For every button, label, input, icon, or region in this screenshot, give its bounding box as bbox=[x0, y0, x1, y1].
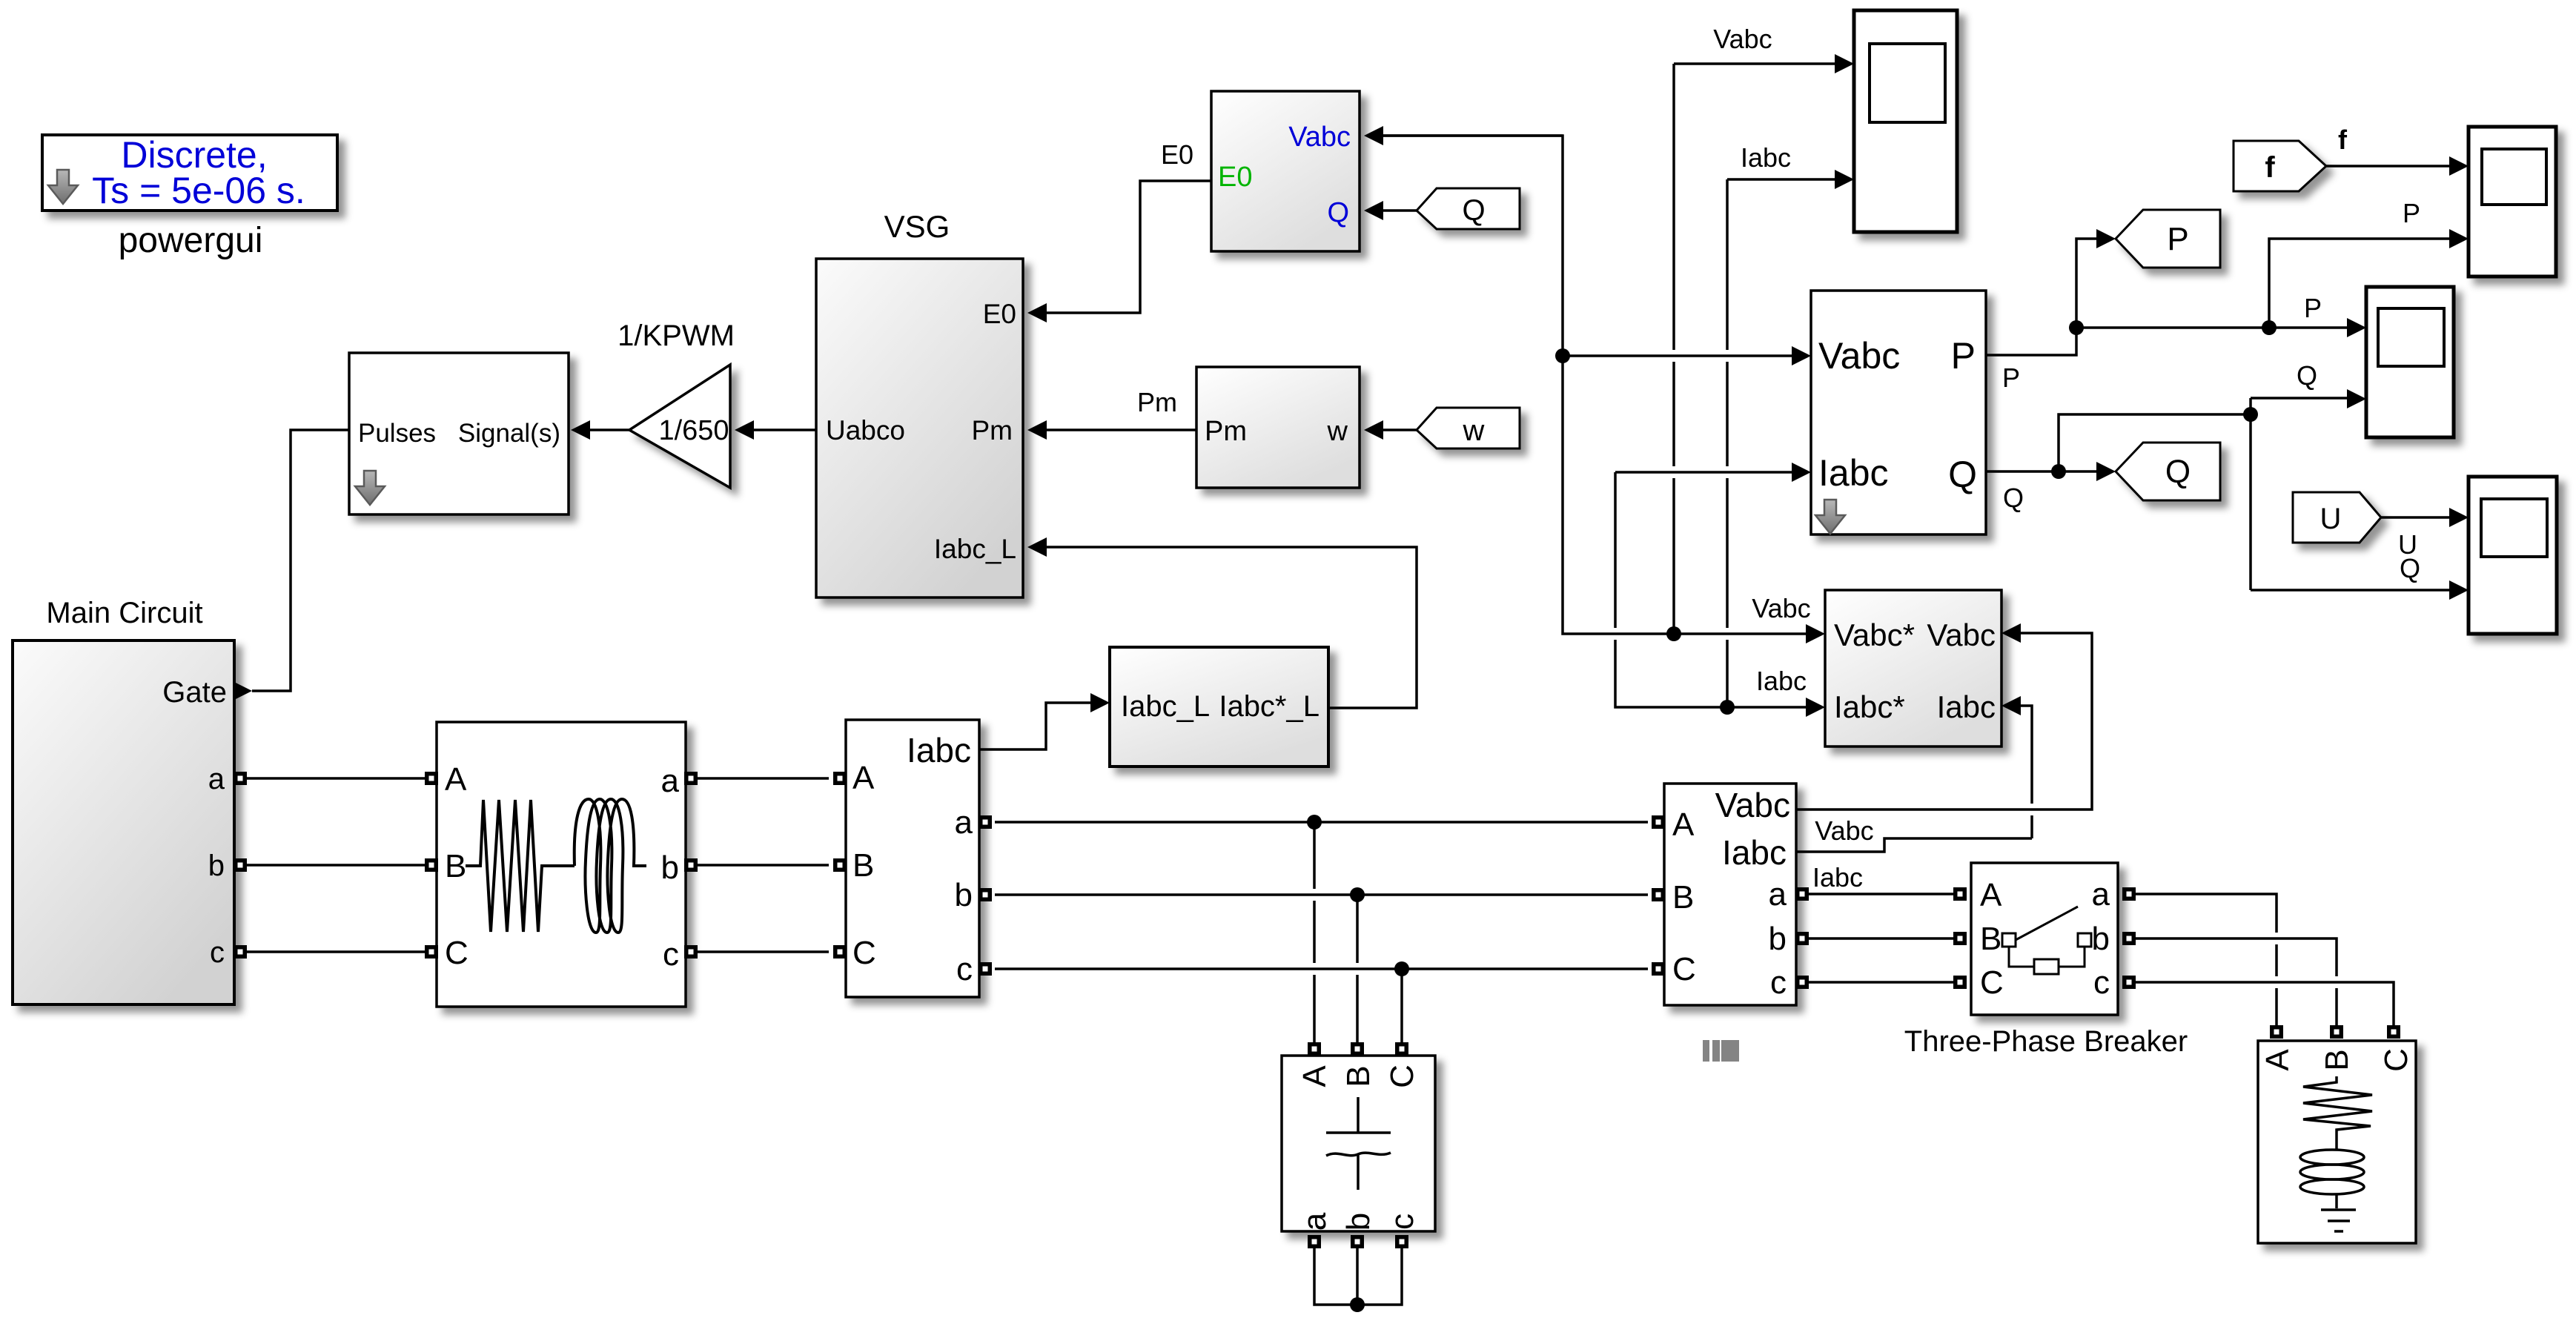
svg-text:Iabc: Iabc bbox=[907, 731, 971, 769]
three-phase capacitor bank bbox=[1282, 1056, 1435, 1231]
Gate input arrow bbox=[233, 681, 252, 701]
svg-text:c: c bbox=[2093, 964, 2110, 1001]
svg-text:A: A bbox=[1980, 877, 2002, 913]
scope2 input arrows bbox=[2347, 318, 2366, 337]
svg-text:B: B bbox=[852, 847, 874, 884]
wire row a measurement1 to measurement2 bbox=[995, 821, 1648, 824]
svg-text:B: B bbox=[1340, 1065, 1377, 1087]
svg-text:E0: E0 bbox=[1161, 139, 1193, 170]
svg-text:b: b bbox=[661, 850, 679, 886]
VSG E0 input arrow bbox=[1027, 303, 1047, 322]
measurement1 port A bbox=[833, 772, 847, 785]
junction node Vabc power tap bbox=[1555, 348, 1570, 363]
svg-text:c: c bbox=[956, 951, 973, 987]
svg-text:Q: Q bbox=[2165, 454, 2191, 490]
wire measurement1 Iabc to Iabc_L block bbox=[979, 703, 1091, 749]
wire w tag to Pm block bbox=[1380, 428, 1417, 431]
wire row a Main Circuit to filter bbox=[245, 777, 426, 780]
svg-text:Q: Q bbox=[2400, 553, 2420, 583]
Vabc net branch to scope bbox=[1674, 64, 1838, 634]
comparison subsystem Vabc* Iabc* bbox=[1825, 590, 2001, 746]
Three-Phase Breaker bbox=[1971, 863, 2118, 1015]
scope U/Q bottom bbox=[2469, 477, 2557, 634]
svg-text:Pm: Pm bbox=[972, 415, 1013, 446]
svg-text:C: C bbox=[2378, 1048, 2414, 1072]
wire breaker b to load B bbox=[2136, 938, 2337, 1026]
svg-text:w: w bbox=[1463, 414, 1485, 447]
svg-text:a: a bbox=[208, 763, 225, 795]
svg-text:f: f bbox=[2338, 125, 2348, 155]
svg-text:C: C bbox=[1672, 951, 1696, 987]
wire breaker c to load C bbox=[2136, 982, 2394, 1026]
svg-text:Vabc: Vabc bbox=[1715, 786, 1790, 824]
svg-text:Three-Phase Breaker: Three-Phase Breaker bbox=[1904, 1025, 2188, 1058]
measurement1 port c bbox=[979, 962, 992, 976]
E0 block Q input arrow bbox=[1364, 201, 1383, 220]
P tag input arrow bbox=[2096, 229, 2116, 248]
svg-text:Gate: Gate bbox=[162, 676, 227, 709]
wire drop c to capacitor C bbox=[1400, 969, 1403, 1044]
svg-text:Q: Q bbox=[1948, 454, 1977, 495]
wire Vabc bus to E0 block bbox=[1380, 134, 1563, 137]
comparison Vabc right input arrow bbox=[2001, 623, 2021, 643]
svg-text:E0: E0 bbox=[983, 299, 1016, 329]
scope P/Q middle bbox=[2366, 287, 2454, 437]
svg-text:C: C bbox=[1980, 964, 2004, 1001]
svg-text:w: w bbox=[1327, 416, 1348, 447]
svg-text:Q: Q bbox=[1327, 197, 1349, 228]
measurement2 port b bbox=[1795, 932, 1809, 945]
svg-text:c: c bbox=[210, 936, 225, 969]
load port B bbox=[2330, 1025, 2343, 1039]
svg-text:P: P bbox=[2002, 362, 2020, 393]
three-phase V-I measurement 2 bbox=[1664, 784, 1796, 1005]
three-phase RLC load bbox=[2258, 1041, 2416, 1243]
From tag U bbox=[2293, 492, 2381, 543]
wire row c measurement1 to measurement2 bbox=[995, 967, 1648, 970]
breaker port a bbox=[2122, 887, 2136, 901]
From tag w bbox=[1417, 408, 1520, 448]
wire gain output to Pulses input bbox=[587, 428, 629, 431]
measurement2 port C bbox=[1652, 962, 1665, 976]
capacitor port B bbox=[1351, 1042, 1364, 1056]
three-phase V-I measurement 1 bbox=[846, 720, 979, 997]
breaker port B bbox=[1953, 932, 1967, 945]
junction node Vabc scope tap bbox=[1666, 626, 1681, 641]
junction node Iabc scope tap bbox=[1720, 700, 1735, 715]
Iabc_L comparison subsystem bbox=[1110, 647, 1328, 767]
measurement1 port C bbox=[833, 945, 847, 959]
pulse generator subsystem (Pulses / Signal(s)) bbox=[349, 353, 569, 514]
capacitor port C bbox=[1395, 1042, 1408, 1056]
wire row c Main Circuit to filter bbox=[245, 950, 426, 953]
port a of Main Circuit bbox=[234, 772, 247, 785]
junction node row a bbox=[1307, 815, 1322, 830]
wire breaker a to load A bbox=[2136, 894, 2277, 1026]
svg-text:Q: Q bbox=[2297, 360, 2317, 391]
junction node Q1 bbox=[2051, 464, 2066, 479]
port b of Main Circuit bbox=[234, 858, 247, 872]
filter port c bbox=[684, 945, 698, 959]
svg-text:c: c bbox=[663, 936, 679, 973]
svg-text:b: b bbox=[208, 850, 225, 882]
svg-text:b: b bbox=[2092, 921, 2110, 957]
svg-text:Vabc: Vabc bbox=[1288, 122, 1351, 153]
breaker port c bbox=[2122, 976, 2136, 989]
svg-text:b: b bbox=[1769, 921, 1787, 957]
svg-text:a: a bbox=[661, 763, 680, 799]
wire filter c to measurement1 C bbox=[696, 950, 829, 953]
svg-text:C: C bbox=[445, 935, 468, 971]
svg-text:P: P bbox=[2403, 198, 2420, 228]
measurement1 port B bbox=[833, 858, 847, 872]
svg-text:Iabc*_L: Iabc*_L bbox=[1219, 690, 1320, 723]
junction node P2 bbox=[2262, 320, 2277, 335]
svg-text:Vabc*: Vabc* bbox=[1834, 618, 1915, 652]
powergui block bbox=[42, 134, 337, 211]
svg-text:B: B bbox=[445, 848, 466, 884]
VSG subsystem bbox=[816, 259, 1023, 597]
VSG Pm input arrow bbox=[1027, 420, 1047, 440]
junction node row b bbox=[1350, 887, 1365, 902]
scope top input arrows bbox=[1835, 54, 1854, 73]
wire measurement2 Iabc output loop to comparison block bbox=[1796, 706, 2032, 852]
svg-text:A: A bbox=[445, 761, 467, 798]
capacitor port c bbox=[1395, 1235, 1408, 1248]
svg-text:1/KPWM: 1/KPWM bbox=[617, 320, 735, 352]
wire measurement2 a to breaker A bbox=[1809, 893, 1953, 895]
wire U tag to scope3 bbox=[2381, 516, 2451, 519]
svg-text:a: a bbox=[2092, 876, 2110, 913]
wire filter a to measurement1 A bbox=[696, 777, 829, 780]
wire Q tag to E0 block bbox=[1380, 209, 1417, 212]
junction node Q2 bbox=[2243, 407, 2258, 422]
breaker port b bbox=[2122, 932, 2136, 945]
junction node neutral bbox=[1350, 1297, 1365, 1312]
svg-text:Ts = 5e-06 s.: Ts = 5e-06 s. bbox=[92, 170, 305, 211]
capacitor port b bbox=[1351, 1235, 1364, 1248]
svg-text:B: B bbox=[1672, 879, 1694, 916]
wire E0 block to VSG E0 bbox=[1044, 181, 1211, 313]
From tag Q bbox=[1417, 188, 1520, 229]
wire drop b to capacitor B bbox=[1356, 895, 1359, 1044]
VSG Iabc_L input arrow bbox=[1027, 537, 1047, 557]
svg-text:Iabc: Iabc bbox=[1741, 142, 1791, 173]
svg-text:Vabc: Vabc bbox=[1927, 618, 1996, 652]
svg-text:Iabc_L: Iabc_L bbox=[1121, 690, 1210, 723]
svg-text:P: P bbox=[1951, 335, 1976, 377]
scope3 input arrows bbox=[2449, 508, 2469, 527]
svg-text:U: U bbox=[2320, 503, 2342, 535]
scope Vabc/Iabc top bbox=[1854, 10, 1957, 232]
svg-text:powergui: powergui bbox=[119, 221, 263, 260]
svg-text:1/650: 1/650 bbox=[658, 415, 729, 446]
wire drop a to capacitor A bbox=[1313, 822, 1316, 1044]
capacitor port A bbox=[1308, 1042, 1321, 1056]
scope1 input arrows bbox=[2449, 156, 2469, 176]
comparison Vabc* input arrow bbox=[1806, 624, 1825, 643]
measurement2 port a bbox=[1795, 887, 1809, 901]
filter port a bbox=[684, 772, 698, 785]
comparison Iabc right input arrow bbox=[2001, 696, 2021, 715]
measurement1 port a bbox=[979, 815, 992, 829]
svg-text:a: a bbox=[1297, 1212, 1333, 1231]
load port C bbox=[2387, 1025, 2400, 1039]
svg-text:B: B bbox=[1980, 921, 2001, 957]
svg-text:Pulses: Pulses bbox=[358, 419, 436, 448]
measurement2 port c bbox=[1795, 976, 1809, 989]
E0 block Vabc input arrow bbox=[1364, 126, 1383, 145]
measurement2 port A bbox=[1652, 815, 1665, 829]
svg-text:C: C bbox=[1384, 1065, 1420, 1088]
svg-text:Iabc: Iabc bbox=[1937, 689, 1996, 724]
power block Iabc input arrow bbox=[1792, 463, 1811, 482]
wire Iabc_L loop to VSG bbox=[1044, 547, 1417, 708]
svg-text:A: A bbox=[1672, 807, 1695, 843]
svg-text:Iabc: Iabc bbox=[1722, 833, 1787, 872]
wire row b Main Circuit to filter bbox=[245, 864, 426, 867]
svg-text:Uabco: Uabco bbox=[826, 415, 905, 446]
svg-text:B: B bbox=[2319, 1049, 2355, 1070]
svg-text:P: P bbox=[2167, 221, 2188, 257]
svg-text:Signal(s): Signal(s) bbox=[458, 419, 560, 448]
measurement1 port b bbox=[979, 888, 992, 901]
svg-text:C: C bbox=[852, 935, 876, 971]
Q output net bbox=[1986, 398, 2451, 590]
svg-text:a: a bbox=[1769, 876, 1787, 913]
breaker port A bbox=[1953, 887, 1967, 901]
svg-text:E0: E0 bbox=[1218, 162, 1252, 193]
instantaneous power measurement block bbox=[1811, 291, 1986, 534]
filter port b bbox=[684, 858, 698, 872]
wire Pm block to VSG Pm bbox=[1044, 428, 1196, 431]
svg-text:Iabc: Iabc bbox=[1812, 862, 1863, 893]
svg-text:Main Circuit: Main Circuit bbox=[46, 597, 202, 629]
svg-text:Vabc: Vabc bbox=[1815, 815, 1873, 846]
annotation marks bbox=[1703, 1040, 1739, 1062]
wire row b measurement1 to measurement2 bbox=[995, 893, 1648, 896]
filter port C bbox=[425, 945, 438, 959]
filter port A bbox=[425, 772, 438, 785]
goto tag P bbox=[2116, 210, 2220, 268]
svg-text:b: b bbox=[1340, 1213, 1377, 1231]
svg-text:Iabc: Iabc bbox=[1818, 452, 1889, 494]
P output net bbox=[1986, 239, 2451, 355]
load port A bbox=[2270, 1025, 2283, 1039]
svg-text:A: A bbox=[852, 760, 875, 796]
wire f tag to scope1 bbox=[2326, 165, 2451, 168]
wire measurement2 c to breaker C bbox=[1809, 981, 1953, 984]
svg-text:Iabc*: Iabc* bbox=[1834, 689, 1905, 724]
svg-text:f: f bbox=[2265, 151, 2275, 184]
svg-text:VSG: VSG bbox=[884, 209, 950, 244]
Pm block w input arrow bbox=[1364, 420, 1383, 440]
junction node row c bbox=[1394, 961, 1409, 976]
svg-text:Iabc_L: Iabc_L bbox=[934, 534, 1016, 564]
Q tag input arrow bbox=[2096, 462, 2116, 481]
Pm governor subsystem (w -> Pm) bbox=[1196, 367, 1360, 488]
wire filter b to measurement1 B bbox=[696, 864, 829, 867]
svg-text:Vabc: Vabc bbox=[1818, 335, 1900, 377]
E0 control subsystem (Vabc,Q -> E0) bbox=[1211, 91, 1360, 251]
svg-text:Vabc: Vabc bbox=[1713, 24, 1772, 54]
breaker port C bbox=[1953, 976, 1967, 989]
power block Vabc input arrow bbox=[1792, 346, 1811, 365]
svg-text:c: c bbox=[1770, 964, 1787, 1001]
Vabc net bus bbox=[1380, 136, 1809, 634]
wire VSG Uabco to gain input bbox=[750, 428, 816, 431]
Iabc net branch to scope bbox=[1727, 179, 1838, 707]
svg-text:c: c bbox=[1384, 1214, 1420, 1230]
junction node P1 bbox=[2069, 320, 2084, 335]
svg-text:Q: Q bbox=[1462, 194, 1485, 227]
From tag f bbox=[2234, 141, 2326, 191]
comparison Iabc* input arrow bbox=[1806, 698, 1825, 717]
wire Pulses output to Gate bbox=[252, 430, 349, 691]
filter port B bbox=[425, 858, 438, 872]
wire capacitor neutral join bbox=[1314, 1248, 1402, 1305]
svg-text:Pm: Pm bbox=[1137, 387, 1177, 417]
three-phase filter block with waveform icon bbox=[437, 722, 686, 1007]
port c of Main Circuit bbox=[234, 945, 247, 959]
svg-text:Pm: Pm bbox=[1205, 416, 1247, 447]
wire measurement2 b to breaker B bbox=[1809, 937, 1953, 940]
measurement2 port B bbox=[1652, 888, 1665, 901]
svg-text:b: b bbox=[955, 877, 973, 913]
Main Circuit subsystem bbox=[13, 640, 234, 1004]
svg-text:A: A bbox=[2259, 1049, 2296, 1071]
wire measurement2 Vabc output loop to comparison block bbox=[1796, 633, 2092, 810]
svg-text:Vabc: Vabc bbox=[1752, 593, 1810, 623]
Iabc net bus bbox=[1615, 472, 1809, 707]
svg-text:P: P bbox=[2304, 293, 2322, 323]
svg-text:a: a bbox=[955, 804, 973, 841]
capacitor port a bbox=[1308, 1235, 1321, 1248]
goto tag Q bbox=[2116, 443, 2220, 500]
svg-text:Q: Q bbox=[2003, 483, 2024, 513]
svg-text:A: A bbox=[1297, 1065, 1333, 1087]
gain 1/650 (1/KPWM) bbox=[629, 365, 730, 488]
scope f/P right top bbox=[2469, 127, 2556, 277]
svg-text:Iabc: Iabc bbox=[1756, 666, 1807, 696]
